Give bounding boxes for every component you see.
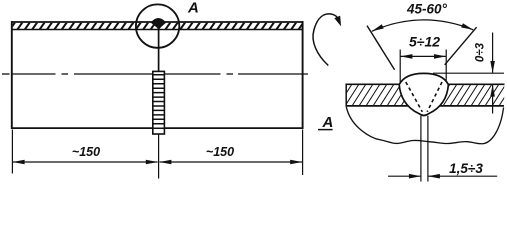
pipe left edge — [11, 21, 13, 129]
extension line 5÷12 left — [399, 50, 401, 83]
dimension line 5÷12 — [401, 55, 447, 57]
extension line 5÷12 right — [445, 50, 447, 83]
svg-text:5÷12: 5÷12 — [409, 33, 440, 49]
extension line left — [11, 130, 13, 174]
svg-text:45-60°: 45-60° — [406, 1, 448, 16]
pipe bottom edge — [11, 127, 153, 129]
svg-text:1,5÷3: 1,5÷3 — [449, 161, 483, 176]
dimension line ~150 left — [13, 161, 158, 163]
extension line right — [302, 130, 304, 176]
svg-text:A: A — [322, 114, 334, 131]
centerline — [2, 73, 308, 75]
weld bead outline (detail) — [399, 73, 448, 115]
reference line weld top — [433, 72, 504, 74]
svg-text:A: A — [187, 0, 199, 17]
plate bottom surface — [346, 105, 505, 107]
bevel extension right — [445, 27, 477, 65]
pipe wall bottom line — [11, 29, 303, 31]
detail circle A — [136, 4, 179, 47]
weld bead (section) — [150, 18, 166, 29]
pipe wall hatching (left view) — [10, 22, 304, 29]
bevel extension left — [367, 26, 395, 70]
break line (wavy) — [346, 107, 503, 144]
angle dimension arc — [372, 20, 473, 31]
dimension line 1,5÷3 — [388, 175, 421, 177]
weld centerline upper — [158, 29, 160, 72]
plate top surface — [346, 83, 505, 85]
svg-text:~150: ~150 — [206, 145, 234, 159]
root gap edge right — [427, 116, 429, 182]
dim 0÷3 upper — [492, 33, 494, 73]
weld seam (front view) — [153, 71, 165, 134]
plate hatching (detail) — [338, 84, 507, 106]
svg-text:~150: ~150 — [72, 145, 100, 159]
pipe right edge — [302, 21, 304, 129]
label A underline — [318, 129, 333, 131]
plate left end — [345, 84, 347, 107]
dim 0÷3 lower — [492, 85, 494, 114]
weld centerline lower / extension — [158, 134, 160, 179]
root gap edge left — [420, 116, 422, 182]
groove edge dashed right — [427, 82, 442, 112]
dimension line ~150 right — [160, 161, 302, 163]
svg-text:0÷3: 0÷3 — [475, 42, 487, 62]
pipe wall top line — [11, 21, 303, 23]
groove edge dashed left — [406, 82, 423, 112]
rotation arrow — [313, 14, 340, 66]
